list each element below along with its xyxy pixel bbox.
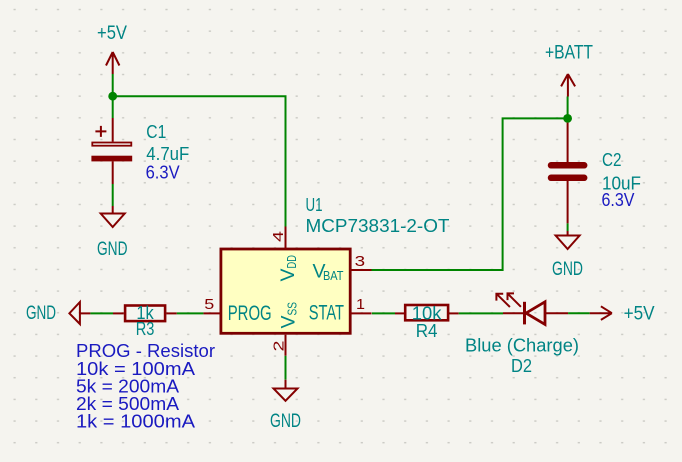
pin name VSS <box>278 302 300 329</box>
junction B <box>563 114 572 123</box>
svg-text:PROG: PROG <box>228 301 272 325</box>
svg-text:R3: R3 <box>136 319 155 339</box>
svg-text:6.3V: 6.3V <box>602 190 635 210</box>
R4 right pin stub <box>447 312 459 314</box>
pin 5 PROG wire <box>203 312 221 314</box>
svg-text:V: V <box>278 315 300 328</box>
R3 left pin stub <box>113 312 124 314</box>
svg-text:C1: C1 <box>146 122 166 142</box>
wire C1 to ground <box>112 184 114 206</box>
wire LED to +5V <box>568 312 590 314</box>
svg-text:GND: GND <box>97 238 128 260</box>
power +5V symbol (right, pointing right) <box>590 306 612 320</box>
svg-text:U1: U1 <box>306 195 323 215</box>
resistor R3 <box>125 306 165 322</box>
svg-text:GND: GND <box>552 258 583 280</box>
capacitor C2 <box>551 123 584 224</box>
wire R3 to PROG pin <box>177 312 204 314</box>
svg-text:SS: SS <box>285 302 300 316</box>
svg-text:1k = 1000mA: 1k = 1000mA <box>76 412 195 432</box>
junction A <box>108 92 117 101</box>
svg-text:BAT: BAT <box>323 269 344 283</box>
GND power flag (left) <box>69 302 90 324</box>
svg-text:+5V: +5V <box>97 22 127 44</box>
svg-text:STAT: STAT <box>309 300 344 324</box>
svg-text:+BATT: +BATT <box>545 42 593 64</box>
svg-text:4.7uF: 4.7uF <box>146 144 189 164</box>
svg-text:1: 1 <box>356 297 365 313</box>
IC U1 body MCP73831 <box>221 249 350 333</box>
svg-text:PROG - Resistor: PROG - Resistor <box>76 341 215 361</box>
ground (below C1) <box>101 206 125 227</box>
pin 1 STAT wire <box>350 312 371 314</box>
wire STAT to R4 <box>372 312 395 314</box>
svg-text:GND: GND <box>26 302 56 324</box>
power +5V symbol (top left) <box>106 52 119 74</box>
svg-text:2: 2 <box>272 341 288 352</box>
svg-text:R4: R4 <box>416 321 438 341</box>
wire GND flag to R3 <box>90 312 113 314</box>
svg-text:D2: D2 <box>511 356 532 376</box>
wire +BATT to junction <box>567 97 569 123</box>
svg-text:5: 5 <box>204 297 214 313</box>
svg-text:DD: DD <box>284 255 299 269</box>
R3 right pin stub <box>166 312 176 314</box>
capacitor C1 <box>91 118 132 184</box>
svg-text:3: 3 <box>355 254 366 270</box>
wire R4 to LED <box>459 312 503 314</box>
R4 left pin stub <box>395 312 405 314</box>
svg-text:+5V: +5V <box>624 303 655 325</box>
pin 3 VBAT wire <box>350 269 371 271</box>
ground (below U1) <box>274 380 298 401</box>
resistor R4 <box>405 305 448 320</box>
svg-text:C2: C2 <box>602 150 622 170</box>
wire junction to VDD pin <box>113 96 286 226</box>
wire VSS to ground <box>285 356 287 380</box>
wire +5V to junction and C1 <box>112 74 114 118</box>
pin name VBAT <box>313 261 344 284</box>
power +BATT symbol (top right) <box>561 74 575 97</box>
svg-text:MCP73831-2-OT: MCP73831-2-OT <box>306 216 450 236</box>
ground (below C2) <box>556 231 580 249</box>
wire junction to VBAT pin <box>372 118 568 270</box>
pin 4 VDD wire <box>285 227 287 250</box>
svg-text:Blue (Charge): Blue (Charge) <box>465 336 579 356</box>
svg-text:V: V <box>277 268 299 281</box>
pin 2 VSS wire <box>285 335 287 356</box>
LED D2 <box>496 293 568 324</box>
svg-text:6.3V: 6.3V <box>146 162 180 182</box>
pin name VDD <box>277 255 299 282</box>
svg-text:4: 4 <box>271 231 287 242</box>
wire C2 to ground <box>567 223 569 231</box>
svg-text:GND: GND <box>270 410 301 432</box>
